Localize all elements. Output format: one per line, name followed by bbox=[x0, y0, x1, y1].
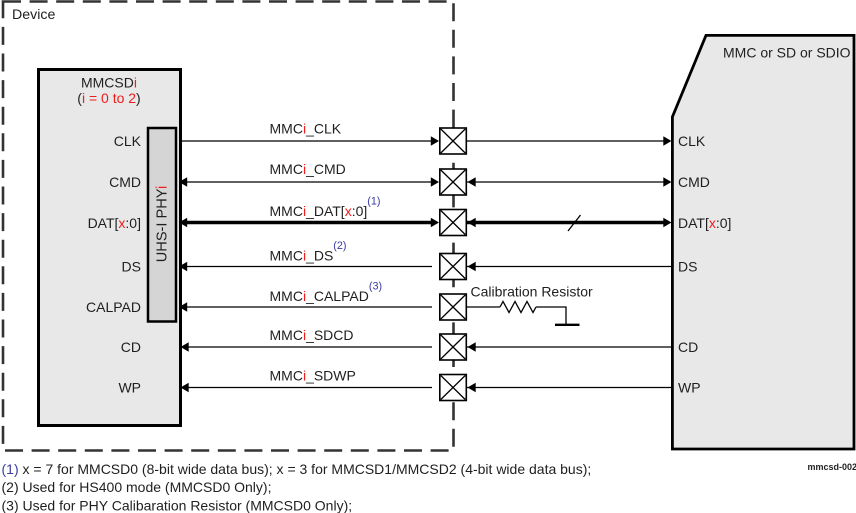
wire pad to calibration resistor bbox=[467, 306, 500, 308]
svg-text:CD: CD bbox=[678, 339, 698, 355]
arrow out of pad CMD bbox=[468, 177, 476, 186]
wire MMCi_CLK left segment bbox=[180, 140, 432, 142]
svg-text:Calibration Resistor: Calibration Resistor bbox=[471, 284, 593, 300]
IO pad WP bbox=[440, 375, 467, 401]
wire MMCi_CALPAD left segment bbox=[180, 306, 432, 308]
arrow out of pad WP bbox=[468, 383, 476, 392]
arrow into PHY DS bbox=[179, 262, 187, 271]
arrow into pad DAT bbox=[431, 218, 439, 227]
arrow into pad CLK bbox=[431, 136, 439, 145]
wire MMCi_SDCD right segment bbox=[467, 346, 672, 348]
svg-text:DAT[x:0]: DAT[x:0] bbox=[678, 215, 731, 231]
svg-text:CLK: CLK bbox=[678, 133, 706, 149]
bus-width slash on DAT bbox=[568, 215, 581, 231]
svg-text:MMCi_CMD: MMCi_CMD bbox=[270, 161, 346, 177]
svg-text:(2) Used for HS400 mode (MMCSD: (2) Used for HS400 mode (MMCSD0 Only); bbox=[2, 479, 272, 495]
svg-text:CMD: CMD bbox=[678, 174, 710, 190]
wire MMCi_SDWP right segment bbox=[467, 387, 672, 389]
device dashed boundary box bbox=[3, 2, 454, 451]
resistor (calibration) bbox=[500, 302, 536, 313]
arrow out of pad CD bbox=[468, 342, 476, 351]
wire MMCi_SDCD left segment bbox=[181, 346, 432, 348]
arrow into block CD bbox=[181, 342, 189, 351]
svg-text:WP: WP bbox=[678, 380, 701, 396]
block UHS-I PHYi bbox=[148, 128, 176, 322]
wire MMCi_DAT left segment (bus) bbox=[180, 221, 432, 224]
svg-text:MMC or SD or SDIO: MMC or SD or SDIO bbox=[723, 45, 851, 61]
svg-text:MMCi_SDCD: MMCi_SDCD bbox=[270, 327, 354, 343]
svg-text:(3) Used for PHY Calibaration: (3) Used for PHY Calibaration Resistor (… bbox=[2, 497, 353, 513]
IO pad CALPAD bbox=[440, 294, 467, 320]
arrow into PHY CMD bbox=[179, 177, 187, 186]
arrow into PHY DAT bbox=[179, 218, 187, 227]
arrow into pad CMD bbox=[431, 177, 439, 186]
block MMC or SD or SDIO bbox=[672, 35, 854, 449]
IO pad CMD bbox=[440, 169, 467, 195]
wire MMCi_CMD left segment bbox=[180, 181, 432, 183]
wire MMCi_DAT right segment (bus) bbox=[467, 221, 666, 224]
svg-text:DS: DS bbox=[122, 259, 141, 275]
arrow out of pad DS bbox=[468, 262, 476, 271]
svg-text:(i = 0 to 2): (i = 0 to 2) bbox=[77, 90, 140, 106]
wire resistor to ground bbox=[536, 307, 566, 324]
arrow into card DAT bbox=[663, 218, 671, 227]
svg-text:mmcsd-002: mmcsd-002 bbox=[807, 462, 856, 472]
ground bbox=[555, 324, 580, 326]
svg-text:(1) x = 7 for MMCSD0 (8-bit wi: (1) x = 7 for MMCSD0 (8-bit wide data bu… bbox=[2, 461, 592, 477]
IO pad DAT bbox=[440, 210, 467, 236]
block MMCSDi bbox=[39, 70, 181, 426]
arrow out of pad DAT bbox=[468, 218, 476, 227]
svg-text:DS: DS bbox=[678, 259, 697, 275]
wire MMCi_CLK right segment bbox=[467, 140, 666, 142]
IO pad CD bbox=[440, 334, 467, 360]
svg-text:WP: WP bbox=[118, 380, 141, 396]
wire MMCi_DS right segment bbox=[467, 266, 672, 268]
arrow into block WP bbox=[181, 383, 189, 392]
svg-text:CMD: CMD bbox=[109, 174, 141, 190]
arrow into card CMD bbox=[663, 177, 671, 186]
svg-text:UHS-I PHYi: UHS-I PHYi bbox=[155, 186, 171, 263]
svg-text:MMCi_SDWP: MMCi_SDWP bbox=[270, 368, 356, 384]
wire MMCi_DS left segment bbox=[180, 266, 432, 268]
wire MMCi_CMD right segment bbox=[467, 181, 666, 183]
svg-text:DAT[x:0]: DAT[x:0] bbox=[88, 215, 141, 231]
IO pad CLK bbox=[440, 128, 467, 154]
arrow into card CLK bbox=[663, 136, 671, 145]
svg-text:CLK: CLK bbox=[114, 133, 142, 149]
svg-text:CD: CD bbox=[121, 339, 141, 355]
svg-text:MMCSDi: MMCSDi bbox=[81, 75, 137, 91]
svg-text:Device: Device bbox=[12, 7, 55, 23]
svg-text:CALPAD: CALPAD bbox=[86, 299, 141, 315]
svg-text:MMCi_CLK: MMCi_CLK bbox=[270, 121, 342, 137]
IO pad DS bbox=[440, 254, 467, 280]
arrow into PHY CALPAD bbox=[179, 302, 187, 311]
wire MMCi_SDWP left segment bbox=[181, 387, 432, 389]
